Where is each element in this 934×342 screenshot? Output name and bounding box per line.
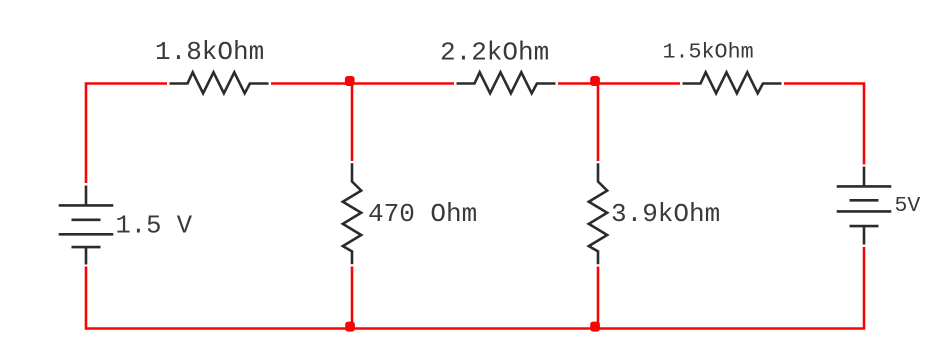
wire: R3 to node B [558, 82, 599, 85]
resistor R3 2.2kOhm (horizontal, top-middle) [457, 72, 556, 93]
svg-text:1.5kOhm: 1.5kOhm [663, 40, 754, 65]
wire: node A to resistor R3 (2.2kOhm) [352, 82, 454, 85]
node B junction dot [590, 76, 600, 86]
wire: R5 right lead to top-right corner down to battery V2 [784, 84, 864, 165]
wire: bottom rail node D to bottom-right corner up to battery V2 [598, 247, 864, 329]
resistor R1 1.8kOhm (horizontal, top-left) [170, 72, 269, 93]
node D junction dot [590, 322, 600, 332]
wire: node A down to resistor R2 (470 Ohm) [351, 84, 354, 162]
wire: resistor R4 bottom lead down to node D [597, 267, 600, 329]
wire: node B down to resistor R4 (3.9kOhm) [597, 84, 600, 162]
wire: resistor R2 bottom lead down to node C [351, 267, 354, 329]
wire: battery V1 minus terminal down to bottom-left corner and across to node C [86, 267, 353, 329]
battery V1 1.5 V (left side) [59, 186, 114, 265]
wire: bottom rail node C to node D [352, 327, 599, 330]
wire: R1 right lead to node A [271, 82, 353, 85]
svg-text:470 Ohm: 470 Ohm [368, 199, 477, 229]
svg-text:1.8kOhm: 1.8kOhm [155, 37, 264, 67]
resistor R2 470 Ohm (vertical, left-middle) [343, 163, 361, 264]
svg-text:2.2kOhm: 2.2kOhm [440, 38, 549, 68]
resistor R4 3.9kOhm (vertical, right-middle) [589, 163, 607, 264]
svg-text:5V: 5V [895, 194, 921, 218]
node A junction dot [345, 76, 355, 86]
wire: battery V1 plus terminal up to top-left corner and across to R1 [86, 84, 167, 184]
svg-text:3.9kOhm: 3.9kOhm [611, 199, 720, 229]
resistor R5 1.5kOhm (horizontal, top-right) [683, 72, 782, 93]
node C junction dot [345, 322, 355, 332]
wire: node B to resistor R5 (1.5kOhm) [598, 82, 680, 85]
battery V2 5V (right side) [837, 167, 892, 245]
svg-text:1.5 V: 1.5 V [116, 212, 193, 241]
